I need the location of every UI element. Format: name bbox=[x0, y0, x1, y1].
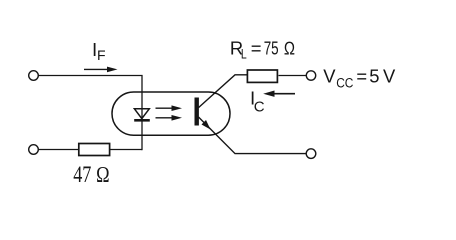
svg-text:5: 5 bbox=[369, 65, 379, 86]
current arrow IC bbox=[263, 91, 295, 97]
light emission arrow lower bbox=[156, 115, 183, 121]
resistor RL bbox=[247, 70, 277, 82]
svg-text:Ω: Ω bbox=[284, 38, 295, 59]
wire LED cathode down to 47 ohm node bbox=[141, 120, 143, 150]
phototransistor emitter wire with arrow to output bbox=[199, 117, 307, 154]
LED D1 cathode bar bbox=[134, 119, 150, 122]
label IF bbox=[92, 39, 106, 63]
label IC bbox=[250, 88, 265, 116]
wire RL to Vcc terminal bbox=[279, 75, 307, 77]
svg-text:C: C bbox=[254, 98, 265, 115]
wire bottom-left terminal to R 47 bbox=[38, 149, 78, 151]
terminal cathode input (bottom-left) bbox=[29, 145, 39, 155]
svg-text:=: = bbox=[251, 38, 262, 59]
svg-text:75: 75 bbox=[264, 39, 279, 60]
current arrow IF bbox=[84, 67, 118, 73]
svg-text:CC: CC bbox=[336, 74, 353, 90]
resistor 47 ohm bbox=[79, 144, 110, 156]
svg-text:V: V bbox=[323, 65, 336, 86]
wire from top-left terminal to optocoupler bbox=[38, 76, 142, 93]
label RL = 75 ohm bbox=[230, 38, 295, 62]
svg-text:F: F bbox=[97, 47, 106, 63]
svg-text:=: = bbox=[356, 65, 367, 86]
terminal emitter output (bottom-right) bbox=[306, 149, 316, 159]
svg-text:L: L bbox=[241, 46, 247, 62]
terminal anode input (top-left) bbox=[29, 71, 39, 81]
optocoupler body U1 (stadium outline) bbox=[112, 92, 230, 135]
svg-text:V: V bbox=[383, 65, 396, 86]
wire LED anode vertical through package bbox=[141, 92, 143, 120]
light emission arrow upper bbox=[156, 105, 183, 111]
terminal Vcc bbox=[306, 71, 315, 80]
label Vcc = 5 V bbox=[323, 65, 396, 90]
LED D1 triangle bbox=[134, 109, 149, 119]
phototransistor Q1 base bar bbox=[195, 98, 199, 126]
emitter arrowhead bbox=[202, 120, 211, 130]
wire R 47 to LED cathode node bbox=[110, 149, 142, 151]
svg-text:47 Ω: 47 Ω bbox=[73, 163, 110, 187]
phototransistor collector wire to RL bbox=[199, 75, 248, 108]
